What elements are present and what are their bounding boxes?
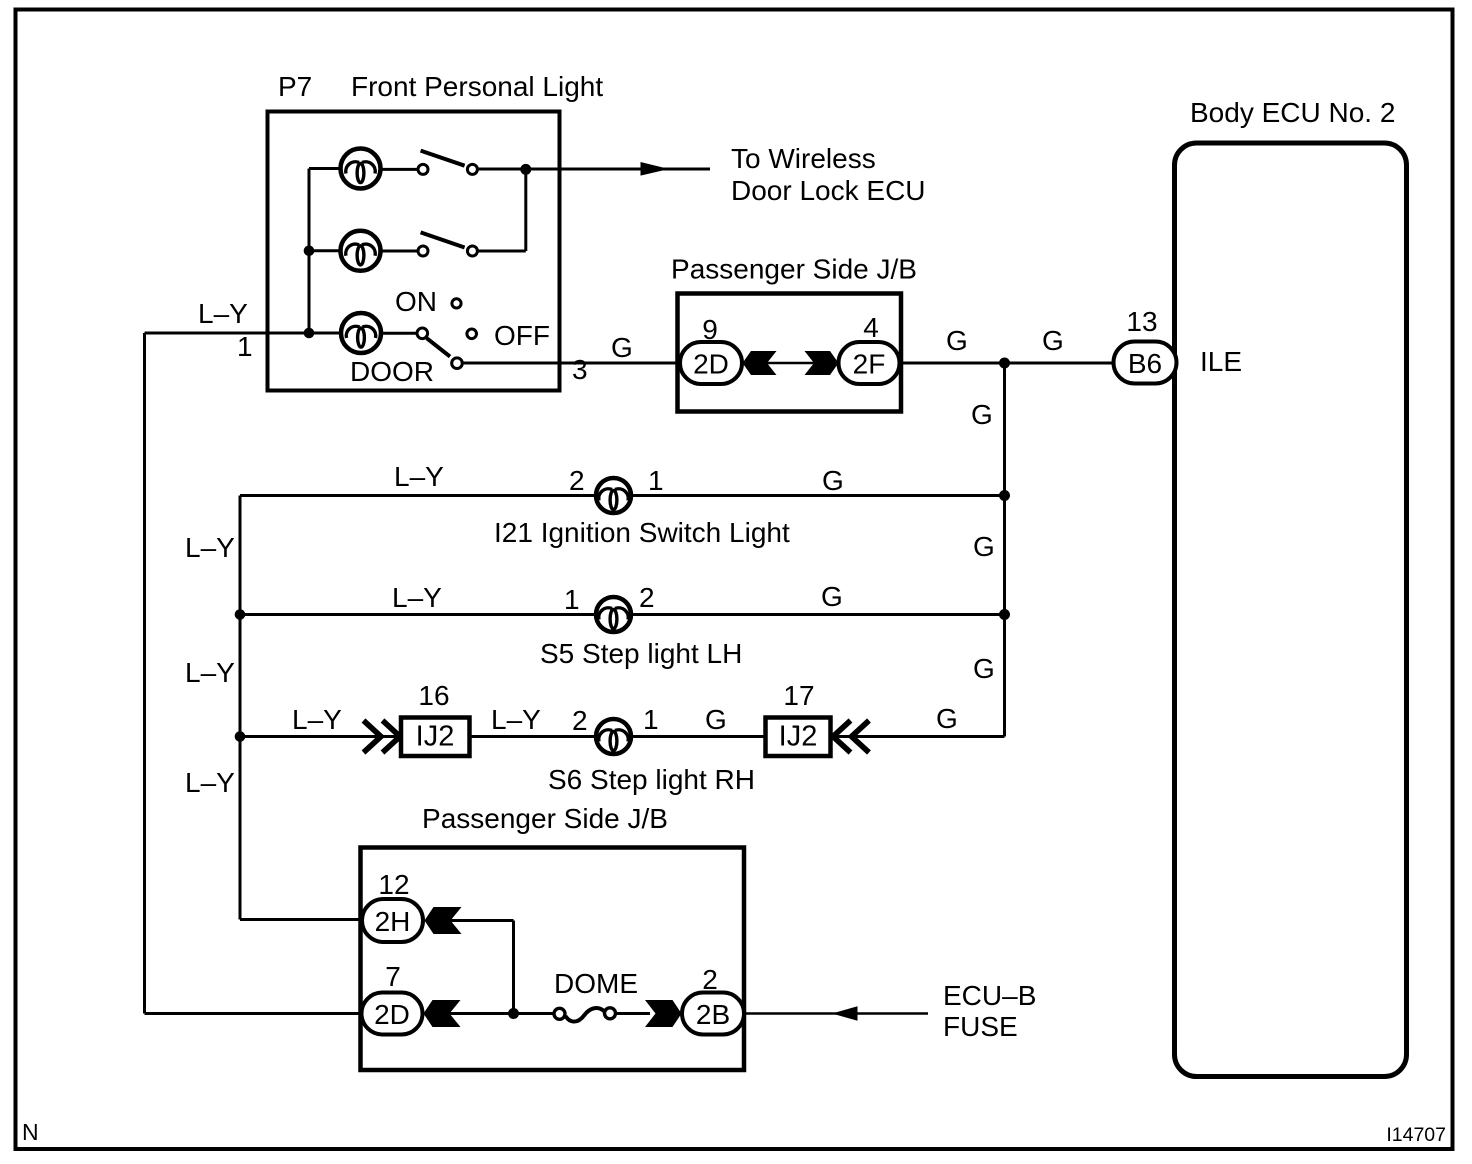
svg-text:4: 4	[863, 312, 879, 343]
svg-text:G: G	[821, 581, 843, 612]
svg-text:L–Y: L–Y	[198, 298, 248, 329]
wire lamp1 stub	[309, 167, 342, 170]
wire 2B to ECU-B fuse	[744, 1012, 928, 1015]
switch SW3 DOOR contact	[452, 358, 463, 369]
connector IJ2 16 box	[401, 718, 470, 757]
svg-text:L–Y: L–Y	[185, 657, 235, 688]
ECU body box	[1175, 143, 1407, 1077]
lamp P7 bulb 3	[341, 313, 381, 353]
wire lamp1 to switch1	[380, 168, 418, 171]
arrow into 2D bottom	[424, 1000, 461, 1027]
wire L-Y feed into P7 pin1	[145, 332, 344, 335]
svg-text:3: 3	[572, 354, 588, 385]
junction block box top	[678, 294, 902, 412]
lamp S6	[596, 719, 631, 754]
svg-text:I21 Ignition Switch Light: I21 Ignition Switch Light	[494, 517, 790, 548]
lamp I21	[596, 478, 631, 513]
svg-text:IJ2: IJ2	[416, 721, 455, 753]
wire left main vertical down	[143, 333, 146, 1014]
svg-text:G: G	[936, 703, 958, 734]
svg-text:ON: ON	[395, 286, 437, 317]
svg-text:Passenger Side J/B: Passenger Side J/B	[422, 803, 668, 834]
svg-text:Passenger Side J/B: Passenger Side J/B	[671, 254, 917, 285]
lamp S5	[596, 597, 631, 632]
svg-text:L–Y: L–Y	[491, 704, 541, 735]
wire 2H arrow to corner	[450, 919, 514, 922]
switch SW2 blade	[421, 232, 465, 247]
svg-text:12: 12	[378, 869, 409, 900]
svg-text:2H: 2H	[375, 906, 411, 937]
svg-text:G: G	[946, 325, 968, 356]
svg-text:2: 2	[569, 465, 585, 496]
svg-text:N: N	[22, 1119, 39, 1145]
wire lamp3 to switch3 common	[380, 332, 418, 335]
connector 2F oval	[839, 342, 900, 384]
arrow into 2D	[743, 351, 777, 375]
arrow into 2B	[645, 1000, 682, 1027]
svg-text:G: G	[611, 332, 633, 363]
wire bottom to 2D	[145, 1012, 364, 1015]
chevron arrows into IJ2 17	[833, 721, 851, 753]
switch SW3 blade	[427, 338, 450, 356]
svg-text:13: 13	[1126, 306, 1157, 337]
svg-text:B6: B6	[1128, 348, 1162, 379]
node main G junction	[999, 358, 1010, 369]
wire SW2 to vertical	[478, 250, 526, 253]
svg-text:Door Lock ECU: Door Lock ECU	[731, 175, 926, 206]
node junction SW outputs	[520, 164, 531, 175]
node junction lamp3 bus	[304, 328, 315, 339]
wire junction down to SW2	[524, 169, 527, 251]
connector 2D bottom oval	[362, 993, 423, 1035]
svg-text:16: 16	[418, 680, 449, 711]
lamp P7 bulb 2	[341, 231, 381, 271]
wire DOOR contact out pin3 to J/B	[463, 362, 681, 365]
svg-text:2D: 2D	[693, 349, 729, 380]
svg-text:To Wireless: To Wireless	[731, 143, 876, 174]
connector IJ2 17 box	[766, 718, 831, 757]
svg-text:ILE: ILE	[1200, 346, 1242, 377]
svg-text:1: 1	[237, 331, 253, 362]
svg-text:ECU–B: ECU–B	[943, 980, 1036, 1011]
connector B6 oval	[1114, 342, 1177, 384]
lamp P7 bulb 1	[341, 149, 381, 189]
svg-text:S5 Step light LH: S5 Step light LH	[540, 638, 742, 669]
switch SW3 common contact	[417, 328, 428, 339]
svg-text:2: 2	[639, 582, 655, 613]
arrow from ECU-B fuse	[832, 1006, 858, 1021]
svg-text:1: 1	[648, 465, 664, 496]
fuse DOME element	[566, 1008, 605, 1022]
fuse DOME contact left	[554, 1008, 565, 1019]
wire line3 S6 left	[240, 735, 1005, 738]
svg-text:G: G	[971, 399, 993, 430]
svg-text:G: G	[973, 653, 995, 684]
svg-text:Front Personal Light: Front Personal Light	[351, 71, 603, 102]
wire SW1 to junction and out to arrow	[478, 168, 711, 171]
svg-text:DOOR: DOOR	[350, 356, 434, 387]
switch SW1 contact a	[418, 164, 428, 174]
svg-text:2: 2	[572, 705, 588, 736]
svg-text:DOME: DOME	[554, 968, 638, 999]
svg-text:I14707: I14707	[1386, 1124, 1446, 1146]
wire corner down to dome line	[512, 921, 515, 1014]
svg-text:2F: 2F	[853, 349, 886, 380]
svg-text:G: G	[705, 704, 727, 735]
chevron arrows into IJ2 16	[364, 721, 382, 753]
svg-text:OFF: OFF	[494, 320, 550, 351]
svg-text:2D: 2D	[374, 999, 410, 1030]
switch SW3 OFF contact	[467, 329, 477, 339]
svg-text:FUSE: FUSE	[943, 1011, 1018, 1042]
svg-text:17: 17	[783, 680, 814, 711]
svg-text:2B: 2B	[696, 999, 730, 1030]
wire right G vertical	[1003, 363, 1006, 737]
switch SW3 ON contact	[452, 299, 461, 308]
node junction line1 right	[999, 490, 1010, 501]
svg-text:G: G	[973, 531, 995, 562]
wire fuse to arrow	[616, 1012, 650, 1015]
svg-text:1: 1	[564, 584, 580, 615]
node junction line2 left	[235, 609, 246, 620]
node junction at dome line	[508, 1008, 519, 1019]
svg-text:S6 Step light RH: S6 Step light RH	[548, 764, 755, 795]
wire left second vertical	[239, 496, 242, 920]
svg-text:L–Y: L–Y	[292, 704, 342, 735]
node junction lamp2 bus	[304, 246, 315, 257]
svg-text:L–Y: L–Y	[185, 532, 235, 563]
arrow to wireless door lock ECU	[641, 162, 670, 176]
junction block box bottom	[361, 848, 745, 1071]
switch SW2 contact a	[418, 246, 428, 256]
wire lamp2 stub	[309, 249, 342, 252]
arrow into 2F	[805, 351, 839, 375]
svg-text:G: G	[822, 465, 844, 496]
wire lamp2 to switch2	[380, 250, 418, 253]
svg-text:L–Y: L–Y	[394, 461, 444, 492]
node junction line3 left	[235, 731, 246, 742]
svg-text:G: G	[1042, 325, 1064, 356]
svg-text:P7: P7	[278, 71, 312, 102]
wire line1 I21	[240, 494, 1005, 497]
fuse DOME contact right	[605, 1008, 616, 1019]
arrow into 2H	[425, 907, 462, 934]
connector 2D top oval	[680, 342, 742, 384]
wire between 2D and 2F	[742, 362, 839, 365]
node junction line2 right	[999, 609, 1010, 620]
svg-text:7: 7	[385, 961, 401, 992]
wire lamp bus vertical inside P7	[308, 169, 311, 334]
wire 2D to fuse	[449, 1012, 555, 1015]
wire to 2H	[240, 918, 364, 921]
wire line2 S5	[240, 613, 1005, 616]
connector 2H oval	[362, 899, 423, 942]
svg-text:1: 1	[643, 704, 659, 735]
svg-text:L–Y: L–Y	[185, 767, 235, 798]
switch SW1 contact b	[467, 164, 477, 174]
svg-text:2: 2	[702, 964, 718, 995]
switch SW1 blade	[421, 151, 465, 166]
connector 2B oval	[682, 993, 744, 1035]
svg-text:Body ECU No. 2: Body ECU No. 2	[1190, 97, 1395, 128]
switch SW2 contact b	[467, 246, 477, 256]
connector P7 box	[268, 112, 560, 391]
svg-text:IJ2: IJ2	[779, 721, 818, 753]
svg-text:L–Y: L–Y	[392, 582, 442, 613]
wire 2F to B6	[899, 362, 1116, 365]
